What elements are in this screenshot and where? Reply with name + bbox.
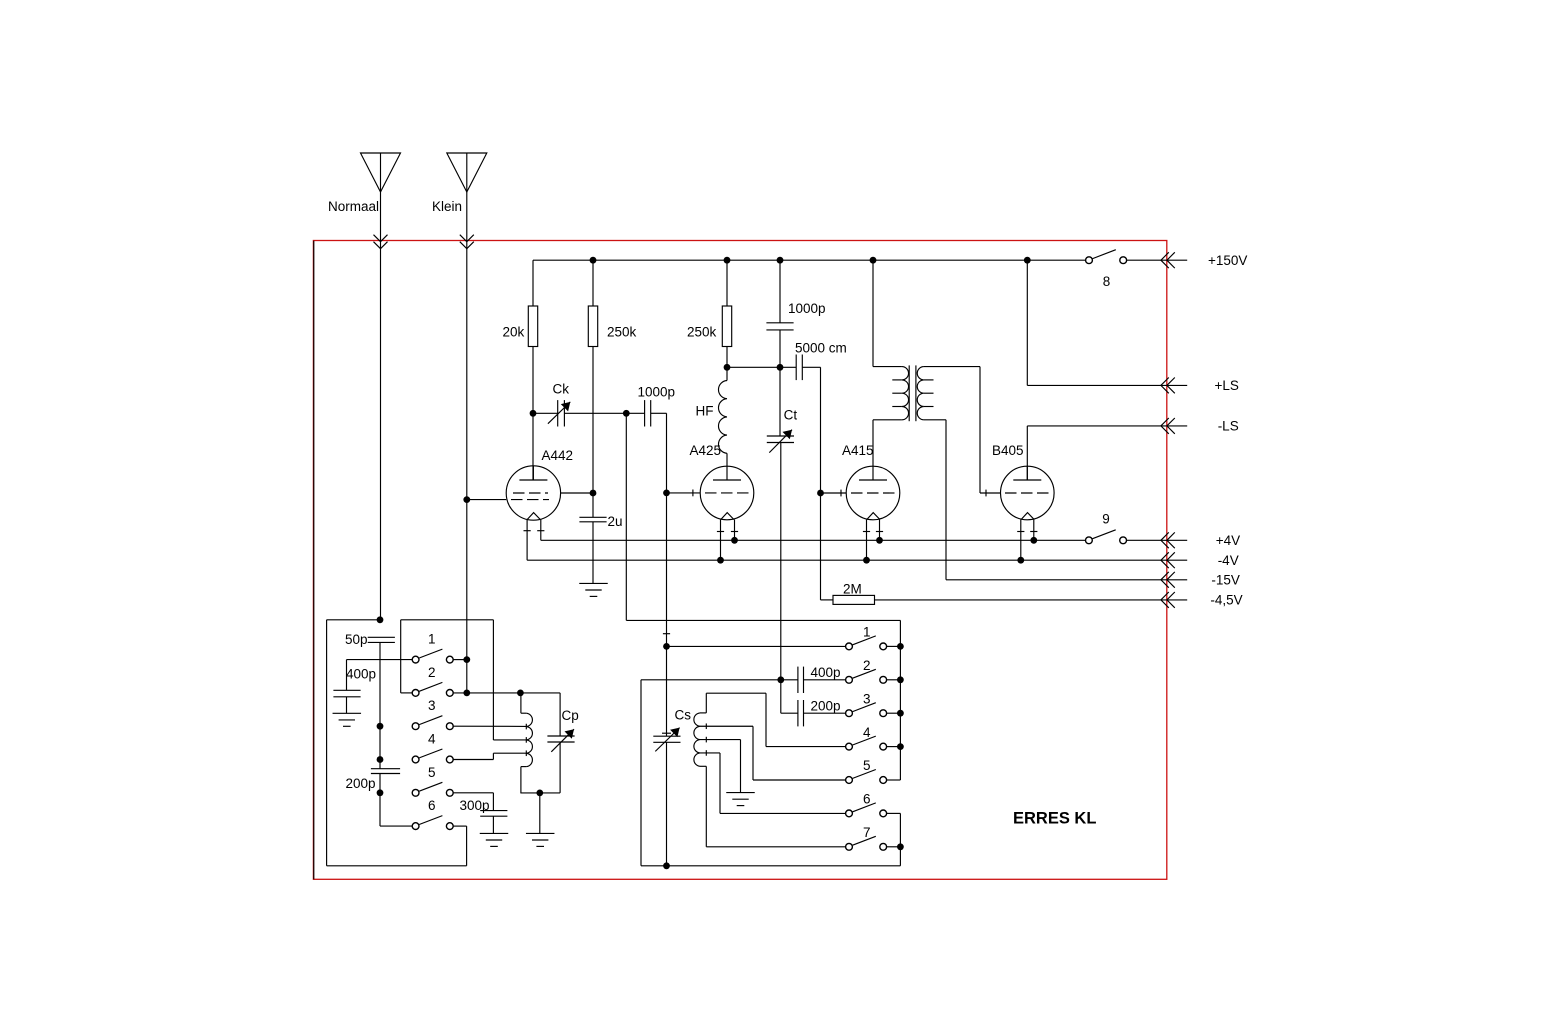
node Cp coil top [517,690,524,697]
node B405 filament/-4V [1017,557,1024,564]
wire bus to R 250k-2 [726,260,728,306]
wire bus to R 250k-1 [592,260,594,306]
wire Cs block bottom [641,865,900,867]
node Ct/400p/200p [777,676,784,683]
svg-text:1: 1 [863,625,871,640]
secondary winding turn ticks [924,379,934,381]
svg-text:Cp: Cp [562,708,579,723]
wire row5 [753,779,846,781]
terminal arrow -4V [1161,552,1187,568]
wire down to A425 grid node [666,413,668,493]
wire outer loop left [326,620,328,866]
wire Cp cap to bottom [559,742,561,793]
wire 20k to Ck node [532,347,534,414]
A415 filament lead ticks [863,531,870,533]
svg-text:Cs: Cs [675,707,692,722]
wire +LS [1027,384,1161,386]
wire to switch 2 left contact [401,692,413,694]
wire to Ck [533,412,558,414]
switch 3 (left block) [412,716,453,730]
Ct variable arrow [769,430,792,453]
terminal arrow +150V [1161,252,1187,268]
Cp variable arrow [551,729,574,752]
wire HF coil to A425 anode [726,453,728,466]
wire secondary bottom [924,419,946,421]
tube A415 (triode) [846,466,900,520]
wire riser row5 [752,726,754,780]
wire switch 8 to +150V terminal [1127,259,1161,261]
antenna Klein [447,153,487,192]
Ck variable arrow [548,402,570,424]
wire A442 anode lead [532,413,534,480]
svg-text:250k: 250k [607,325,637,340]
node HF top [724,364,731,371]
wire to Cp tap2 [493,739,526,741]
svg-text:5000 cm: 5000 cm [795,340,847,355]
wire Ck to 1000p [564,412,644,414]
switch 5 (right block) [846,770,887,784]
svg-text:9: 9 [1102,511,1110,526]
antenna Normaal [361,153,401,192]
node to wave switch block [623,410,630,417]
wire A415 filament right leg [879,520,881,541]
svg-text:+4V: +4V [1216,533,1240,548]
wire down to 200p [780,680,782,713]
antenna Klein down-arrow at border [460,235,474,249]
node bus/250k-2 [724,257,731,264]
ground 300p [480,833,509,846]
inductor HF coil [718,381,727,454]
wire row6 [720,812,846,814]
node bus [897,710,904,717]
wire 200p to row5 node [379,774,381,793]
wire down to 300p [492,793,494,811]
A442 filament lead ticks [524,530,531,532]
switch 6 (right block) [846,803,887,817]
svg-text:ERRES KL: ERRES KL [1013,810,1096,828]
A425 filament lead ticks [717,531,724,533]
wire 400p feed row [641,679,781,681]
node row4 [377,756,384,763]
node bus [897,643,904,650]
wire switch 3 right contact to bus [887,712,901,714]
node bus row7 [897,843,904,850]
switch 9 [1086,530,1127,544]
wire 1000p to A425 grid line [651,412,667,414]
svg-text:200p: 200p [811,698,841,713]
wire screen node to 2u [592,493,594,517]
wire -4,5V line [875,599,1161,601]
svg-text:A442: A442 [542,448,574,463]
svg-text:4: 4 [428,732,436,747]
switch 1 (left block) [412,649,453,663]
wire 200p to switch3 [804,712,846,714]
node screen/250k/2u [590,490,597,497]
B405 filament lead ticks [1017,531,1024,533]
wire tap2 ground drop [740,740,742,793]
svg-text:8: 8 [1103,274,1111,289]
svg-text:3: 3 [428,698,436,713]
wire Cs top to row4 riser [706,692,766,694]
wire B405 anode to -LS [1026,426,1028,480]
wire Cs coil bottom stub [700,765,706,767]
wire 1000p to HF node [779,330,781,367]
transformer T1 primary winding [902,367,909,420]
wire switch 6 right contact to bus [887,812,901,814]
wire +150V top bus [533,259,1086,261]
node B405 filament/+4V [1030,537,1037,544]
switch 5 (left block) [412,782,453,796]
node 20k/Ck/A442 anode [530,410,537,417]
wire B405 grid lead [980,492,1001,494]
wire block left down to switch2 [400,620,402,693]
svg-text:3: 3 [863,691,871,706]
wire to HF coil [726,367,728,380]
node row3 [377,723,384,730]
svg-text:A425: A425 [690,443,722,458]
wire primary bottom [873,419,902,421]
wire -4V line [527,559,1161,561]
svg-text:B405: B405 [992,443,1024,458]
wire 2u to ground [592,522,594,584]
wire right bus rows6-7 [899,813,901,865]
red chassis border [313,241,1166,880]
capacitor 400p (antenna) [333,690,360,697]
capacitor Cs (variable) [653,736,680,742]
svg-text:2u: 2u [608,514,623,529]
Cs variable arrow [655,728,679,752]
wire A442 filament left leg to -4V [526,520,528,561]
wire switch 4 right contact to bus [887,746,901,748]
svg-text:Ct: Ct [784,408,798,423]
resistor 250k (A442 screen) [588,306,597,347]
wire Cp right branch [559,693,561,736]
wire Cp bottom [520,792,560,794]
wire -LS [1027,425,1161,427]
node A415 grid [817,490,824,497]
wire Klein antenna mast down to grid node [466,153,468,500]
wire Cp coil bottom [520,767,522,793]
svg-text:+150V: +150V [1208,253,1247,268]
switch 7 (right block) [846,836,887,850]
terminal arrow -15V [1161,572,1187,588]
svg-text:+LS: +LS [1215,378,1239,393]
capacitor 50p [368,637,395,642]
wire switch 9 to +4V terminal [1127,539,1161,541]
node Klein/switch1 [463,656,470,663]
wire to Cp coil [520,693,522,713]
node row1 feed [663,643,670,650]
resistor 20k [528,306,537,347]
wire row4 to 200p [379,760,381,769]
Cp coil tap ticks [525,724,527,730]
wire down to A415 grid and 2M [820,367,822,600]
capacitor 200p (padder) [798,700,804,726]
svg-text:250k: 250k [687,325,717,340]
node Klein/switch2 [463,690,470,697]
node A425 filament/-4V [717,557,724,564]
wire bus to R 20k [532,260,534,306]
wire to Cp tap3 [493,752,526,754]
B405 grid lead tick [985,490,987,497]
node A425 filament/+4V [731,537,738,544]
wire secondary top down to B405 grid [979,367,981,493]
wire 250k-1 down to screen node [592,347,594,494]
wire 400p node to switch 1 left [347,659,413,661]
wire riser row4 [765,693,767,746]
wire row1 [667,645,846,647]
resistor 250k (A425 anode) [722,306,731,347]
node antenna/50p [377,616,384,623]
svg-text:5: 5 [863,758,871,773]
wire Cs coil top lead [705,693,707,713]
wire node to Ct [779,367,781,436]
wire Cs bottom to row7 [705,766,707,847]
wire Cs tap2 to ground [700,739,741,741]
node Cp ground [536,790,543,797]
switch 8 [1086,250,1127,264]
svg-text:7: 7 [863,825,871,840]
wire Ct down to 400p node [780,443,782,680]
svg-text:HF: HF [696,403,714,418]
ground 400p [333,713,362,726]
switch 2 (left block) [412,682,453,696]
Cs coil tap ticks [705,723,707,729]
wire outer loop top [327,619,380,621]
wire to row4 node [379,726,381,759]
capacitor 300p [480,811,507,817]
wire switch4 right [453,759,493,761]
tube B405 (output triode) [1001,466,1055,520]
capacitor Cp (variable) [547,736,574,742]
wire A425 anode node row [727,366,796,368]
capacitor Ck (variable) [558,400,565,426]
svg-text:6: 6 [428,798,436,813]
svg-text:1: 1 [428,632,436,647]
transformer core bar 2 [915,365,917,421]
wire 300p to ground [492,816,494,833]
terminal arrow +LS [1161,378,1187,394]
node bus [897,743,904,750]
wire to 400p [781,679,798,681]
wire A442 filament right leg to +4V [540,520,542,541]
node bus/transformer [870,257,877,264]
wire secondary top [924,366,980,368]
wire switch 7 right contact to bus [887,846,901,848]
svg-text:Normaal: Normaal [328,199,379,214]
transformer T1 secondary winding [917,367,924,420]
wire Klein line down to switch row 2 [466,500,468,693]
switch 4 (right block) [846,736,887,750]
wire Cs tap3 [700,752,720,754]
capacitor 1000p (anode bypass) [766,323,793,330]
junction tick on grid drop wire [663,633,670,635]
terminal arrow -LS [1161,418,1187,434]
primary winding turn ticks [892,379,902,381]
svg-text:1000p: 1000p [638,385,676,400]
capacitor 5000 cm [796,355,802,381]
wire to switch 6 left contact [380,825,412,827]
inductor Cp coil [526,713,532,766]
wire -15V line [946,579,1161,581]
svg-text:6: 6 [863,792,871,807]
svg-text:-LS: -LS [1218,419,1239,434]
ground Cp [526,833,555,846]
node row5 [377,789,384,796]
terminal arrow -4,5V [1161,592,1187,608]
svg-text:-4V: -4V [1218,553,1239,568]
capacitor 2u [579,517,606,522]
svg-text:-4,5V: -4,5V [1210,593,1242,608]
wire +4V line [541,539,1086,541]
wire A415 grid lead [821,492,847,494]
wire Cp coil top stub [521,712,526,714]
wire A425 grid lead [667,492,701,494]
wire secondary bottom down to -15V [945,420,947,580]
wire block right down to Cp tap2 [492,620,494,740]
wire A415 filament left leg [866,520,868,561]
svg-text:2M: 2M [843,582,862,597]
wire outer loop right up to switch 6 [466,826,468,866]
tube A442 (screen-grid tetrode) [506,466,560,520]
node bus [897,676,904,683]
wire 5000cm to A415 grid line [802,366,820,368]
capacitor 200p [371,769,400,774]
wire switch6 right contact [453,825,466,827]
switch 1 (right block) [846,636,887,650]
wire riser row6 [719,753,721,813]
transformer core bar 1 [908,365,910,421]
switch 6 (left block) [412,816,453,830]
capacitor Ct (variable) [767,436,794,443]
node bottom [663,862,670,869]
wire down to right switch block top [625,413,627,620]
wire 250k-2 to HF node [726,347,728,368]
svg-text:1000p: 1000p [788,301,826,316]
wire Normaal antenna mast down to node [380,153,382,620]
wire right block bus (rows1-5) [899,620,901,780]
capacitor 400p (padder) [798,667,804,693]
wire Cp coil bottom stub [521,766,526,768]
switch 3 (right block) [846,703,887,717]
wire primary top [873,366,902,368]
antenna Normaal down-arrow at border [374,235,388,249]
wire A442 control grid lead [467,499,506,501]
node bus/+LS feed [1024,257,1031,264]
wire 50p to row3 node [379,642,381,726]
wire down to 400p [346,660,348,691]
wire left rail (black, on border) [313,241,315,879]
wire switch 2 right contact to bus [887,679,901,681]
node grid/Klein line [463,496,470,503]
wire Cs block left [640,680,642,866]
resistor 2M [821,599,834,601]
tube A425 (triode) [700,466,754,520]
wire row4 [766,746,846,748]
wire row7 [706,846,845,848]
wire Cs tap1 [700,725,753,727]
wire jog up [492,753,494,759]
svg-text:4: 4 [863,725,871,740]
svg-text:2: 2 [863,658,871,673]
node bus/250k-1 [590,257,597,264]
wire right block top [626,619,900,621]
svg-text:20k: 20k [503,325,525,340]
wire switch2 to Cp top [453,692,560,694]
svg-text:A415: A415 [842,443,874,458]
node A425 grid/coupling [663,490,670,497]
wire outer loop bottom [327,865,467,867]
capacitor 1000p (coupling) [645,400,651,426]
node A415 filament/-4V [863,557,870,564]
wire grid line down to Cs cap [666,493,668,736]
wire B405 filament left leg [1020,520,1022,561]
wire Cs coil top stub [700,712,706,714]
wire A442 screen grid lead [561,492,593,494]
tick above Cs capacitor [662,732,671,734]
wire 400p to switch2 [804,679,846,681]
svg-text:Klein: Klein [432,199,462,214]
ground 2u [579,583,608,596]
svg-text:5: 5 [428,765,436,780]
wire Cs cap to bottom [666,742,668,866]
node bus/1000p [777,257,784,264]
wire bus to transformer primary top [872,260,874,366]
A415 grid lead tick [840,490,842,497]
svg-text:400p: 400p [811,665,841,680]
wire to 200p [781,712,798,714]
wire bus to C 1000p [779,260,781,323]
switch 2 (right block) [846,669,887,683]
wire Cp to ground [539,793,541,834]
A425 grid lead tick [692,490,694,497]
svg-text:Ck: Ck [553,381,570,396]
svg-text:300p: 300p [460,798,490,813]
wire +LS drop [1026,260,1028,385]
svg-text:50p: 50p [345,632,368,647]
wire switch 5 right contact to bus [887,779,901,781]
svg-text:2: 2 [428,665,436,680]
ground Cs tap [726,793,755,806]
switch 4 (left block) [412,749,453,763]
wire primary bottom to A415 anode [872,420,874,466]
wire 400p to ground [346,697,348,714]
wire block top (Cp tap2 feed) [401,619,494,621]
terminal arrow +4V [1161,532,1187,548]
svg-text:400p: 400p [346,666,376,681]
wire switch 1 right contact to bus [887,645,901,647]
wire switch5 to 300p [453,792,493,794]
wire B405 filament right leg [1033,520,1035,541]
wire row5 to switch6 [379,793,381,826]
node Ct top [777,364,784,371]
svg-text:200p: 200p [346,776,376,791]
svg-text:-15V: -15V [1211,573,1240,588]
node A415 filament/+4V [876,537,883,544]
wire A425 filament left leg [720,520,722,561]
wire A425 filament right leg [734,520,736,541]
wire switch3 to Cp tap1 [453,725,526,727]
